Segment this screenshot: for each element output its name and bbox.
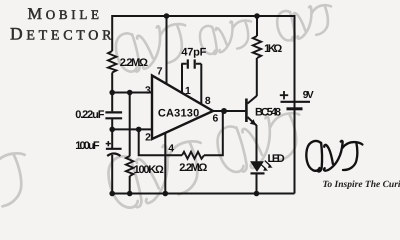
wire: 100K branch bbox=[129, 93, 131, 194]
wire: pin 4 to ground bbox=[164, 133, 166, 194]
svg-text:47pF: 47pF bbox=[181, 47, 206, 59]
junction: ground 100K bbox=[127, 191, 133, 197]
junction: node pin2 left bbox=[109, 127, 115, 133]
capacitor C1 0.22uF plates bbox=[105, 112, 122, 118]
svg-text:1KΩ: 1KΩ bbox=[264, 43, 282, 55]
wire: pin 7 supply bbox=[166, 16, 168, 84]
junction: ground pin4 bbox=[163, 191, 169, 197]
transistor Q1 base bar bbox=[245, 99, 248, 123]
100uF polarity plus bbox=[106, 141, 111, 146]
battery polarity plus bbox=[280, 91, 288, 99]
wire: ground bottom rail bbox=[110, 193, 295, 195]
svg-text:1: 1 bbox=[185, 86, 191, 97]
resistor R3 2.2M feedback zigzag bbox=[182, 152, 204, 159]
LED D1 triangle bbox=[251, 162, 263, 171]
resistor R2 100K zigzag bbox=[126, 156, 133, 176]
svg-text:100uF: 100uF bbox=[75, 140, 100, 152]
svg-text:0.22uF: 0.22uF bbox=[75, 109, 105, 121]
resistor R1 2.2M zigzag bbox=[108, 51, 116, 73]
junction: pin7 at top rail bbox=[164, 13, 170, 19]
schematic wires bbox=[110, 15, 295, 194]
capacitor C2 100uF electrolytic bbox=[106, 149, 122, 156]
wire: 1K / collector branch bbox=[256, 16, 258, 96]
LED emission arrows bbox=[260, 161, 270, 169]
transistor Q1 emitter arrowhead bbox=[250, 119, 256, 125]
capacitor C3 47pF plates bbox=[188, 59, 195, 68]
LED cathode bar bbox=[251, 172, 265, 174]
svg-text:4: 4 bbox=[168, 143, 174, 154]
svg-text:3: 3 bbox=[145, 86, 151, 97]
resistor R4 1K zigzag bbox=[253, 36, 261, 58]
svg-text:7: 7 bbox=[157, 66, 163, 77]
wire: pin 1 bbox=[181, 64, 183, 93]
battery B1 plates bbox=[281, 102, 311, 109]
wire: pin 3 input bbox=[112, 92, 152, 94]
svg-text:To Inspire The Curious: To Inspire The Curious bbox=[323, 180, 400, 190]
wire: pin 2 input bbox=[112, 128, 152, 130]
junction: node pin6 output bbox=[221, 108, 227, 114]
svg-text:2: 2 bbox=[145, 133, 151, 144]
svg-text:100KΩ: 100KΩ bbox=[134, 164, 164, 176]
svg-text:6: 6 bbox=[213, 113, 219, 124]
svg-text:2.2MΩ: 2.2MΩ bbox=[179, 162, 207, 174]
wire: battery branch bbox=[294, 15, 296, 194]
wire: 47pF leads bbox=[181, 63, 201, 65]
wire: left vertical rail bbox=[111, 15, 113, 194]
wire: feedback loop pin2 to pin6 bbox=[139, 111, 223, 155]
junction: ground left rail bbox=[109, 191, 115, 197]
wire: Q1 emitter lead bbox=[248, 117, 257, 126]
wire: LED cathode to ground bbox=[256, 174, 258, 194]
wire: Q1 collector lead bbox=[248, 96, 257, 104]
svg-text:9V: 9V bbox=[303, 90, 314, 101]
svg-text:8: 8 bbox=[205, 96, 211, 107]
svg-text:2.2MΩ: 2.2MΩ bbox=[120, 57, 148, 69]
junction: 1K at top rail bbox=[254, 13, 260, 19]
svg-text:LED: LED bbox=[268, 153, 285, 165]
wire: pin 6 output to Q1 base bbox=[213, 110, 245, 112]
wire: emitter to LED bbox=[256, 125, 258, 162]
GYJ logo bbox=[306, 141, 362, 172]
wire: pin 8 bbox=[200, 64, 202, 104]
svg-text:BC548: BC548 bbox=[255, 107, 281, 119]
title bbox=[10, 4, 112, 44]
watermark GYJ repeated bbox=[0, 3, 336, 225]
junction: node pin3 100K branch bbox=[127, 90, 133, 96]
junction: node pin3 left bbox=[109, 90, 115, 96]
junction: node pin2 feedback bbox=[136, 127, 142, 133]
wire: +9V top rail bbox=[112, 15, 294, 17]
junction: ground LED bbox=[254, 191, 260, 197]
svg-text:CA3130: CA3130 bbox=[158, 108, 199, 120]
op-amp U1 CA3130 triangle bbox=[152, 76, 213, 140]
